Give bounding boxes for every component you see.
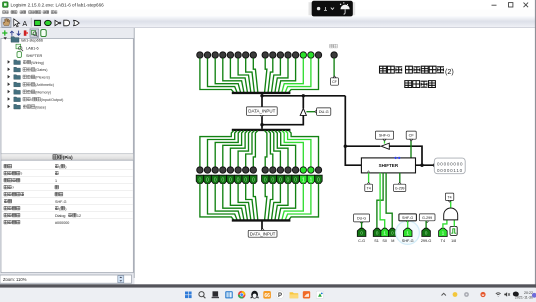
pin S0	[381, 228, 389, 236]
pin M	[388, 228, 396, 236]
LED row2 bit 14	[204, 167, 210, 173]
buffer U1 (DU-G controlled)	[300, 108, 306, 115]
wire fan3 bit 9	[246, 190, 255, 220]
wire fan1 bit 5	[272, 58, 281, 92]
svg-text:S0: S0	[382, 239, 387, 243]
wire pin stem bit 15	[199, 183, 201, 190]
overlay toolbar pill	[312, 1, 354, 17]
wire DU-G buffer output	[302, 96, 304, 109]
wire clock to AND gate	[453, 220, 455, 227]
wire fan1 bit 7	[265, 58, 267, 92]
taskbar: qq	[251, 291, 259, 299]
tree library folder row	[8, 75, 11, 79]
svg-text:(Wiring): (Wiring)	[31, 61, 44, 65]
splitter S2 bus bar	[232, 129, 291, 131]
explorer tool: move down	[17, 31, 21, 36]
tree: circuit SHIFTER	[17, 52, 21, 58]
svg-text:(Base): (Base)	[35, 105, 46, 109]
wire fan3 bit 4	[275, 190, 288, 220]
tunnel DU-G (lower)	[354, 214, 370, 222]
wire fan2 bit 5	[272, 131, 281, 167]
LED row1 bit 2	[300, 52, 306, 58]
wire fan2 bit 8	[253, 131, 257, 167]
wire pin stem bit 4	[287, 183, 289, 190]
svg-text:S1: S1	[374, 239, 379, 243]
wire shifter G-299 stem	[399, 173, 401, 184]
pin DATA bit 8	[250, 175, 257, 183]
svg-text:0: 0	[237, 178, 240, 184]
tree library folder row	[8, 105, 11, 109]
wire pin stem bit 2	[302, 183, 304, 190]
svg-text:M: M	[391, 239, 394, 243]
LED row2 bit 9	[243, 167, 249, 173]
wire DATA_INPUT junction to buffer input	[262, 115, 303, 124]
wire pin stem bit 12	[222, 183, 224, 190]
wire fan1 bit 15	[200, 58, 234, 92]
tray: red icon	[480, 292, 485, 297]
svg-text:0: 0	[317, 178, 320, 184]
tray: notification	[532, 293, 536, 298]
LED row2 bit 15	[197, 167, 203, 173]
svg-text:0: 0	[287, 178, 290, 184]
svg-text:T4: T4	[367, 186, 371, 190]
wire fan3 bit 7	[265, 190, 267, 220]
wire DU-G control	[306, 111, 316, 113]
svg-text:C-G: C-G	[358, 239, 365, 243]
wire fan3 bit 14	[208, 190, 238, 220]
LED row1 bit 11	[227, 52, 233, 58]
wire SHF-G to pin	[407, 221, 409, 229]
tool: NOT gate	[55, 20, 59, 25]
menu item	[29, 11, 32, 14]
svg-text:Dialog: Dialog	[55, 214, 65, 218]
svg-text:2021-11-30: 2021-11-30	[515, 295, 533, 299]
wire shifter S0	[380, 173, 385, 228]
taskbar: search	[199, 292, 206, 299]
attribute row	[4, 178, 8, 182]
logisim app icon	[3, 2, 9, 8]
pin DATA bit 13	[211, 175, 218, 183]
LED row1 bit 10	[235, 52, 241, 58]
attribute row	[4, 199, 8, 203]
wire fan1 bit 1	[285, 58, 311, 92]
tray: caret	[442, 293, 446, 295]
svg-text:1: 1	[406, 230, 409, 236]
wire fan3 bit 15	[200, 190, 234, 220]
pin SHF-G	[403, 228, 412, 236]
wire pin stem bit 14	[207, 183, 209, 190]
svg-text:0: 0	[206, 178, 209, 184]
LED row1 bit 15	[197, 52, 203, 58]
tunnel SHF-G (upper)	[375, 131, 393, 139]
window minimize button	[492, 4, 497, 6]
wire bus right vertical	[344, 96, 346, 146]
wire fan3 bit 10	[238, 190, 251, 220]
pin DATA bit 0	[315, 175, 322, 183]
svg-text:0: 0	[376, 230, 379, 236]
left panel background	[0, 28, 135, 284]
svg-text:0: 0	[229, 178, 232, 184]
svg-text:(Plexers): (Plexers)	[35, 76, 50, 80]
wire fan1 bit 12	[223, 58, 244, 92]
AND gate G1	[444, 208, 458, 220]
tunnel CF (shifter)	[406, 131, 416, 139]
pin DATA bit 2	[300, 175, 307, 183]
svg-text:1: 1	[55, 179, 57, 183]
svg-text:0: 0	[214, 178, 217, 184]
tunnel DU-G (top)	[317, 108, 331, 115]
wire carry LED to CF tunnel	[333, 58, 335, 78]
taskbar: P circle	[276, 291, 284, 299]
tray: gray icon	[464, 292, 469, 297]
wire junction to SHF-G buffer output	[345, 145, 380, 147]
svg-text:0: 0	[425, 230, 428, 236]
svg-text:00000000: 00000000	[437, 162, 463, 167]
tool: edit hand (pressed)	[2, 18, 11, 28]
tree library folder row	[8, 97, 11, 101]
wire splitter3 spine	[261, 221, 263, 230]
svg-text:66: 66	[264, 293, 270, 299]
LED row2 bit 4	[285, 167, 291, 173]
wire bus top horizontal to right	[262, 95, 345, 97]
svg-text:0: 0	[244, 178, 247, 184]
wire pin stem bit 9	[245, 183, 247, 190]
explorer toolbar	[0, 28, 135, 38]
wire fan2 bit 2	[282, 131, 303, 167]
wire pin stem bit 0	[318, 183, 320, 190]
svg-text:Zoom: 110%: Zoom: 110%	[3, 277, 27, 282]
LED row1 bit 5	[277, 52, 283, 58]
wire fan3 bit 5	[272, 190, 281, 220]
svg-text:(Gates): (Gates)	[35, 68, 47, 72]
LED row1 bit 6	[270, 52, 276, 58]
toolbar separator	[30, 18, 32, 27]
wire pin stem bit 3	[295, 183, 297, 190]
tray: wifi	[496, 293, 501, 297]
svg-text:G-299: G-299	[422, 216, 432, 220]
carry label 进位	[330, 44, 334, 48]
pin DATA bit 11	[227, 175, 234, 183]
clock CLK1	[450, 226, 457, 235]
svg-text:1: 1	[309, 178, 312, 184]
taskbar: orange 66	[263, 291, 271, 299]
LED row2 bit 2	[300, 167, 306, 173]
attribute row	[4, 213, 8, 217]
svg-text:CF: CF	[409, 133, 415, 138]
wire pin stem bit 13	[214, 183, 216, 190]
LED row2 bit 12	[220, 167, 226, 173]
wire shifter output to probe	[416, 164, 435, 166]
svg-text:DATA_INPUT: DATA_INPUT	[248, 109, 275, 114]
LED row2 bit 3	[292, 167, 298, 173]
wire fan2 bit 12	[223, 131, 244, 167]
wire fan1 bit 14	[208, 58, 238, 92]
menu item	[43, 11, 46, 14]
svg-text:1: 1	[442, 230, 445, 236]
svg-text:T4: T4	[441, 239, 445, 243]
pin C-G	[357, 228, 366, 236]
LED row1 bit 1	[308, 52, 314, 58]
LED row1 bit 14	[204, 52, 210, 58]
node probe attach	[433, 163, 437, 167]
svg-text:P: P	[278, 293, 282, 299]
wire fan2 bit 15	[200, 131, 234, 167]
taskbar: app blue window	[225, 291, 232, 298]
wire pin stem bit 8	[252, 183, 254, 190]
wire fan2 bit 7	[265, 131, 267, 167]
wire fan2 bit 1	[285, 131, 311, 167]
taskbar: app green doc	[316, 291, 323, 298]
svg-text:#000000: #000000	[55, 221, 69, 225]
svg-text:): )	[65, 165, 66, 169]
svg-text:Logisim 2.15.0.2.exe: LAB1-6 o: Logisim 2.15.0.2.exe: LAB1-6 of lab1-ste…	[11, 2, 105, 7]
wire fan2 bit 3	[278, 131, 295, 167]
svg-text:SHF-G: SHF-G	[55, 200, 67, 204]
wire CF to shifter top	[410, 139, 412, 158]
node output junction	[420, 164, 423, 167]
wire fan2 bit 13	[215, 131, 240, 167]
wire T4 pin to AND gate	[443, 220, 447, 228]
tray: ime icon	[513, 292, 519, 297]
tree library folder row	[8, 68, 11, 72]
svg-text:DATA_INPUT: DATA_INPUT	[250, 231, 276, 236]
wire fan1 bit 11	[230, 58, 247, 92]
pin DATA bit 10	[234, 175, 241, 183]
node buffer output junction	[302, 94, 305, 97]
svg-text:SHIFTER: SHIFTER	[26, 54, 43, 58]
wire fan1 bit 0	[289, 58, 319, 92]
pin DATA bit 14	[204, 175, 211, 183]
svg-text:SHF-G: SHF-G	[402, 239, 414, 243]
project tree box	[1, 38, 133, 153]
attribute row	[4, 220, 8, 224]
wire fan2 bit 0	[289, 131, 319, 167]
node junction top bus	[260, 94, 263, 97]
pin 299-G	[422, 228, 431, 236]
menu item	[20, 11, 23, 14]
taskbar: app orange-blue	[303, 291, 310, 298]
svg-text:0: 0	[221, 178, 224, 184]
svg-text:A: A	[22, 19, 27, 28]
title bar	[0, 0, 536, 10]
buffer U2 (SHF-G controlled)	[381, 143, 389, 149]
clock input marker	[367, 171, 370, 173]
subcircuit SHIFTER U3	[361, 158, 415, 173]
title 实验一 运算器实验(2)	[380, 66, 387, 73]
svg-text:00000110: 00000110	[437, 168, 463, 173]
svg-text:lab1-step666: lab1-step666	[21, 39, 43, 43]
LED row1 bit 4	[285, 52, 291, 58]
tool: AND gate	[64, 20, 70, 26]
wire fan1 bit 4	[275, 58, 288, 92]
svg-text:SHF-G: SHF-G	[402, 216, 413, 220]
wire fan3 bit 1	[285, 190, 311, 220]
wire SHF-G control	[384, 139, 386, 143]
wire fan1 bit 10	[238, 58, 251, 92]
wire pin stem bit 6	[272, 183, 274, 190]
pin DATA bit 1	[307, 175, 314, 183]
wire pin stem bit 5	[279, 183, 281, 190]
pin DATA bit 15	[196, 175, 203, 183]
zoom control bar	[0, 275, 132, 283]
svg-text:LAB1-6: LAB1-6	[26, 46, 39, 50]
LED row2 bit 5	[277, 167, 283, 173]
tree library folder row	[8, 82, 11, 86]
tool: input pin (green square)	[35, 20, 41, 25]
svg-text:1: 1	[302, 178, 305, 184]
window close button	[524, 3, 529, 8]
wire G-299 to pin	[425, 221, 427, 229]
pin DATA bit 6	[269, 175, 276, 183]
svg-text:(Memory): (Memory)	[35, 91, 51, 95]
explorer tool: add circuit (green plus)	[2, 30, 7, 35]
svg-text:SHIFTER: SHIFTER	[379, 163, 399, 168]
wire fan2 bit 6	[268, 131, 273, 167]
svg-text:T4: T4	[448, 195, 452, 199]
wire shifter T4 output stem	[368, 173, 370, 184]
wire pin stem bit 11	[229, 183, 231, 190]
svg-text:0: 0	[360, 230, 363, 236]
LED row1 bit 3	[292, 52, 298, 58]
taskbar: folder	[290, 292, 299, 298]
menu item	[11, 11, 14, 14]
pin DATA bit 5	[277, 175, 284, 183]
tray: volume muted	[504, 292, 507, 297]
LED row2 bit 10	[235, 167, 241, 173]
wire bus spine splitter1 to DATA_INPUT	[261, 94, 263, 129]
tool: select arrow	[14, 19, 20, 27]
probe display	[434, 158, 465, 174]
wire fan2 bit 4	[275, 131, 288, 167]
wire fan2 bit 14	[208, 131, 238, 167]
explorer tool: edit appearance	[41, 30, 46, 37]
attribute row	[4, 185, 8, 189]
node junction shifter feedback	[344, 145, 347, 148]
LED row1 bit 0	[315, 52, 321, 58]
wire AND output to T4 tunnel	[450, 200, 452, 207]
wire fan1 bit 2	[282, 58, 303, 92]
svg-text:(Arithmetic): (Arithmetic)	[35, 83, 54, 87]
svg-text:0: 0	[391, 230, 394, 236]
LED row2 bit 7	[262, 167, 268, 173]
svg-text:(Pin): (Pin)	[63, 155, 73, 160]
wire fan1 bit 8	[253, 58, 257, 92]
tunnel T4 (top right)	[445, 193, 453, 200]
svg-text:20:22: 20:22	[524, 291, 533, 295]
wire fan3 bit 8	[253, 190, 257, 220]
LED row2 bit 13	[212, 167, 218, 173]
explorer tool: move up	[10, 31, 14, 36]
LED row1 bit 8	[250, 52, 256, 58]
tunnel SHF-G (lower, selected)	[399, 214, 417, 221]
wire DU-G to C-G pin	[361, 222, 363, 229]
wire buffer input from right	[389, 146, 422, 165]
tray: yellow icon	[453, 292, 458, 297]
wire fan3 bit 2	[282, 190, 303, 220]
app window bottom edge	[0, 284, 536, 287]
LED row1 bit 9	[243, 52, 249, 58]
taskbar: chrome	[238, 291, 246, 299]
svg-text:0: 0	[294, 178, 297, 184]
LED row2 bit 0	[315, 167, 321, 173]
selection halo	[396, 221, 420, 245]
svg-text:0: 0	[271, 178, 274, 184]
explorer tool: remove (red)	[24, 30, 27, 35]
svg-text:DU-G: DU-G	[319, 109, 329, 114]
svg-text:0: 0	[198, 178, 201, 184]
taskbar: windows start	[185, 292, 192, 299]
tunnel G-299 (under shifter)	[394, 184, 406, 191]
wire fan2 bit 9	[246, 131, 255, 167]
pin DATA bit 12	[219, 175, 226, 183]
svg-text:(Input/Output): (Input/Output)	[41, 98, 64, 102]
splitter S1 bus bar	[232, 92, 291, 94]
wire fan2 bit 11	[230, 131, 247, 167]
title 移位运算	[405, 81, 412, 88]
tree: circuit LAB1-6	[16, 44, 21, 49]
tree library folder row	[8, 90, 11, 94]
menu item	[3, 11, 6, 14]
tool: output pin (green oval)	[45, 20, 52, 25]
wire shifter M	[386, 173, 392, 228]
pin DATA bit 9	[242, 175, 249, 183]
svg-text:0: 0	[264, 178, 267, 184]
wire fan2 bit 10	[238, 131, 251, 167]
wire fan3 bit 0	[289, 190, 319, 220]
wire fan1 bit 13	[215, 58, 240, 92]
menu bar	[0, 10, 536, 17]
LED carry (进位)	[331, 52, 337, 58]
wire shifter S1	[377, 173, 383, 228]
pin marker unconnected (blue dots)	[394, 157, 396, 159]
pin DATA bit 7	[262, 175, 269, 183]
wire fan1 bit 3	[278, 58, 295, 92]
wire pin stem bit 10	[237, 183, 239, 190]
tunnel DATA_INPUT (lower)	[248, 230, 277, 237]
svg-text:(2): (2)	[445, 67, 454, 76]
tunnel CF (top)	[331, 78, 339, 85]
wire junction down to shifter input	[345, 146, 361, 165]
LED row2 bit 6	[270, 167, 276, 173]
wire fan3 bit 13	[215, 190, 240, 220]
attribute row	[4, 192, 8, 196]
LED row1 bit 13	[212, 52, 218, 58]
wire pin stem bit 7	[264, 183, 266, 190]
window maximize button	[509, 3, 513, 7]
svg-text:CF: CF	[332, 80, 337, 84]
wire pin stem bit 1	[310, 183, 312, 190]
svg-text:1/8: 1/8	[451, 239, 456, 243]
node DATA_INPUT junction	[260, 123, 263, 126]
splitter S3 bus bar	[232, 219, 291, 221]
svg-text:?: ?	[20, 172, 22, 176]
attribute row	[4, 164, 8, 168]
svg-text:G-299: G-299	[395, 186, 405, 190]
pin S1	[373, 228, 381, 236]
wire fan3 bit 6	[268, 190, 273, 220]
tool: OR gate	[74, 20, 80, 25]
wire fan1 bit 9	[246, 58, 255, 92]
attribute row	[4, 206, 8, 210]
LED row2 bit 8	[250, 167, 256, 173]
tunnel DATA_INPUT (upper)	[246, 107, 277, 115]
wire fan3 bit 11	[230, 190, 247, 220]
wire fan3 bit 12	[223, 190, 244, 220]
pin DATA bit 3	[292, 175, 299, 183]
svg-text:12: 12	[77, 214, 81, 218]
svg-text:DU-G: DU-G	[357, 216, 366, 220]
tunnel G-299 (lower)	[419, 214, 435, 221]
